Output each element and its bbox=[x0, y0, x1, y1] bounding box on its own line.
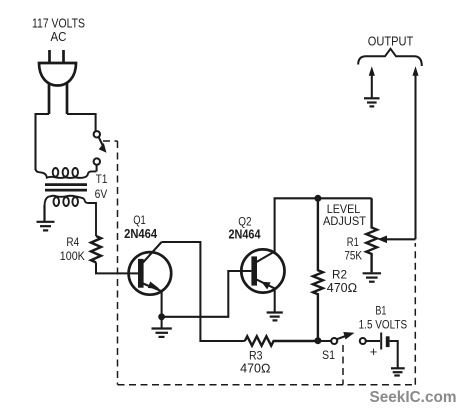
label LEVEL ADJUST bbox=[323, 202, 367, 228]
wire plug left branch bbox=[36, 114, 50, 170]
ground (R1) bbox=[363, 273, 381, 281]
svg-text:470Ω: 470Ω bbox=[327, 281, 357, 295]
svg-text:470Ω: 470Ω bbox=[240, 361, 270, 375]
svg-text:6V: 6V bbox=[95, 189, 108, 201]
svg-text:OUTPUT: OUTPUT bbox=[368, 34, 414, 48]
svg-text:1.5 VOLTS: 1.5 VOLTS bbox=[359, 318, 408, 332]
svg-text:100K: 100K bbox=[60, 249, 85, 263]
svg-text:B1: B1 bbox=[375, 304, 386, 318]
battery B1 bbox=[381, 333, 389, 350]
wire R4 to Q1 base bbox=[96, 262, 138, 273]
ground (Q2 emitter) bbox=[267, 313, 283, 321]
resistor R3 bbox=[245, 336, 315, 345]
label R2 470 ohm bbox=[327, 268, 357, 295]
label 117 VOLTS AC bbox=[32, 17, 85, 45]
resistor R2 bbox=[313, 198, 323, 340]
label Q1 2N464 bbox=[124, 213, 158, 241]
dashed enclosure bbox=[103, 141, 415, 385]
svg-text:ADJUST: ADJUST bbox=[323, 214, 367, 228]
svg-text:+: + bbox=[370, 344, 378, 359]
label R1 75K bbox=[344, 235, 362, 263]
transformer T1 core bbox=[45, 183, 87, 186]
transistor Q2 bbox=[241, 249, 284, 292]
svg-text:R2: R2 bbox=[332, 268, 347, 282]
output bracket (brace) bbox=[358, 49, 422, 66]
node (top rail junction) bbox=[314, 195, 321, 202]
wire Q2 collector to top rail bbox=[275, 198, 372, 252]
wire output left terminal arrow bbox=[371, 71, 373, 98]
label Q2 2N464 bbox=[229, 214, 262, 241]
label R4 100K bbox=[60, 235, 85, 263]
wire emitter junction to Q2 base bbox=[162, 271, 252, 317]
node (R2/R3/S1 junction) bbox=[314, 337, 321, 344]
ground (battery) bbox=[391, 368, 405, 375]
svg-text:2N464: 2N464 bbox=[229, 226, 262, 241]
ground (Q1 emitter) bbox=[152, 329, 172, 337]
svg-text:T1: T1 bbox=[96, 174, 108, 186]
node (Q1 emitter junction) bbox=[158, 313, 165, 320]
wire output hot lead to R1 wiper bbox=[414, 71, 416, 239]
plug P1 bbox=[39, 50, 76, 114]
svg-text:R4: R4 bbox=[66, 235, 79, 249]
svg-text:75K: 75K bbox=[344, 249, 362, 263]
transformer T1 secondary bbox=[45, 196, 97, 236]
transformer T1 primary bbox=[36, 168, 97, 178]
svg-text:Q1: Q1 bbox=[133, 213, 146, 227]
resistor R4 bbox=[91, 236, 101, 262]
wire Q2 emitter to ground bbox=[274, 288, 276, 311]
transistor Q1 bbox=[129, 242, 172, 295]
ground (output) bbox=[364, 98, 380, 106]
wire Q1 collector to R3 bbox=[162, 242, 245, 341]
svg-text:S1: S1 bbox=[322, 348, 335, 362]
label R3 470 ohm bbox=[240, 349, 270, 376]
label T1 6V bbox=[95, 174, 108, 201]
wire battery to ground bbox=[390, 341, 398, 368]
svg-text:SeekIC.com: SeekIC.com bbox=[370, 389, 457, 406]
svg-text:117 VOLTS: 117 VOLTS bbox=[32, 17, 85, 31]
label B1 1.5 VOLTS bbox=[359, 304, 408, 332]
switch (AC line switch) bbox=[94, 131, 107, 171]
wire plug right branch bbox=[67, 114, 96, 131]
svg-text:2N464: 2N464 bbox=[124, 226, 158, 241]
wiper arrow R1 bbox=[382, 238, 416, 240]
svg-text:R1: R1 bbox=[347, 235, 359, 249]
switch S1 bbox=[318, 332, 366, 344]
wire S1 to battery bbox=[366, 340, 380, 342]
ground (transformer secondary) bbox=[37, 205, 55, 230]
potentiometer R1 bbox=[366, 198, 377, 272]
svg-text:AC: AC bbox=[51, 30, 67, 44]
